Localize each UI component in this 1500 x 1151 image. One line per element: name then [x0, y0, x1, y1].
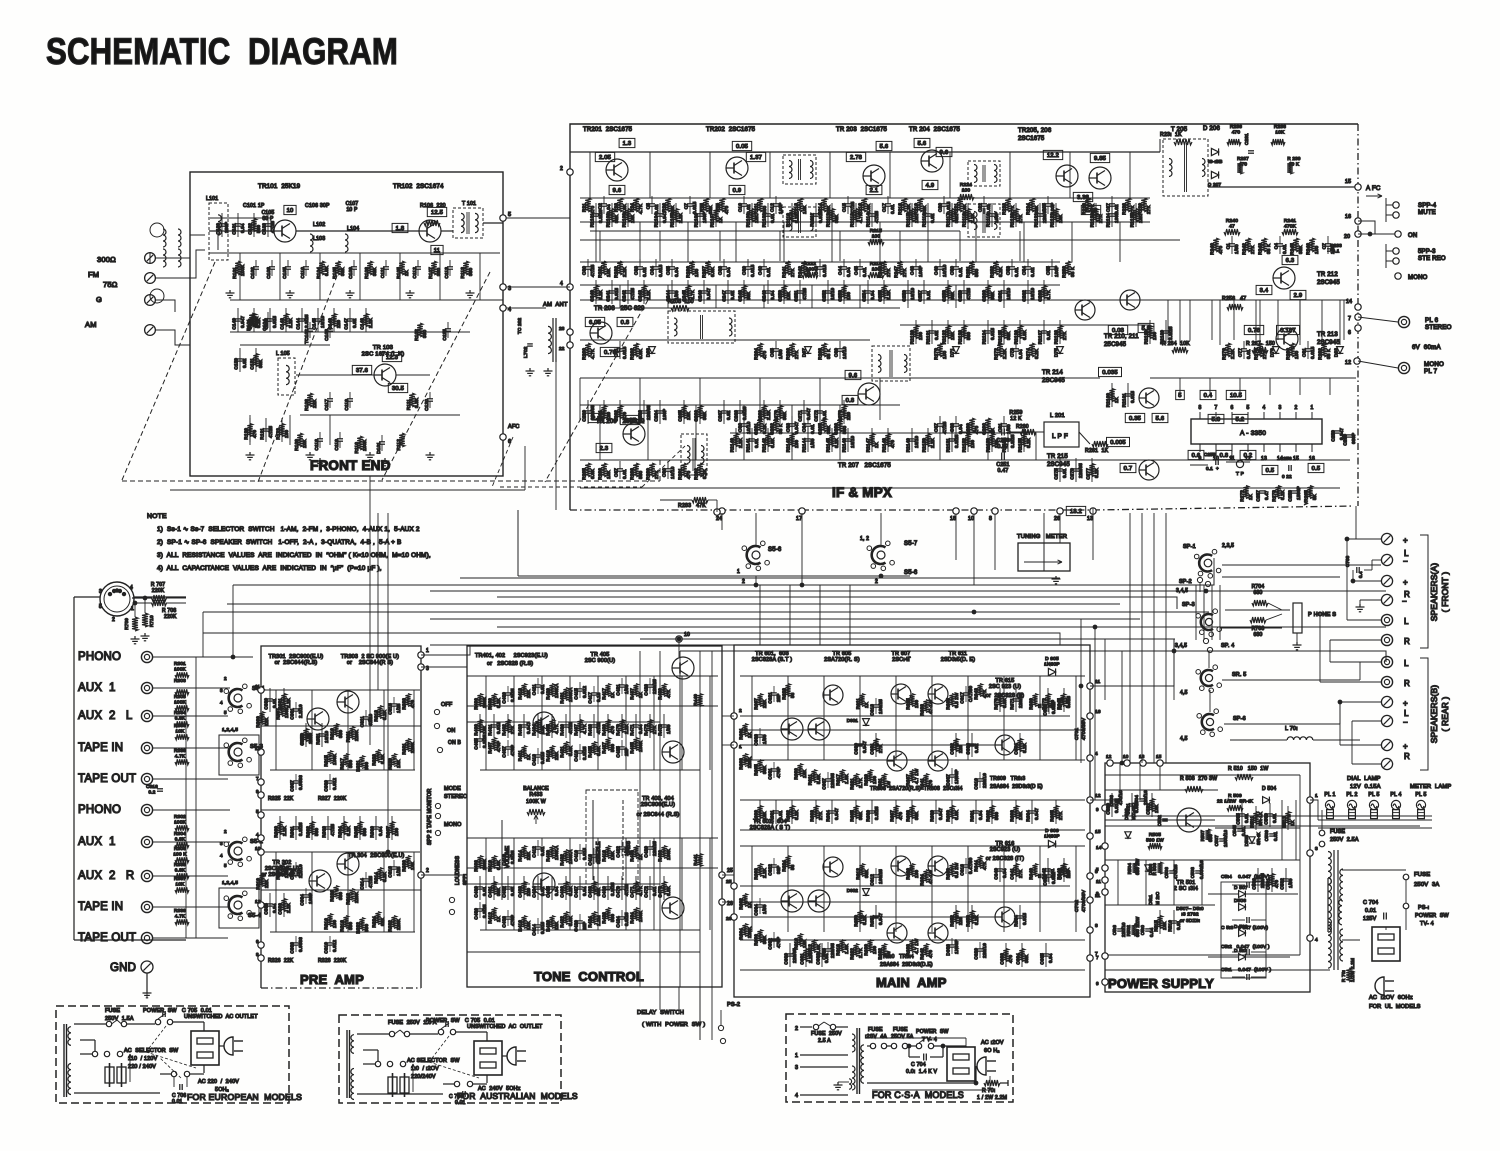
svg-text:2SC923 (U): 2SC923 (U) — [990, 847, 1020, 853]
svg-text:8.2K: 8.2K — [382, 710, 387, 720]
svg-text:R302: R302 — [174, 814, 186, 819]
wire — [789, 943, 791, 967]
svg-text:220K: 220K — [747, 927, 752, 938]
wire — [479, 876, 481, 900]
node 20 — [1355, 231, 1361, 237]
capacitor C77 — [1241, 348, 1247, 350]
wire — [365, 308, 367, 332]
svg-text:1K: 1K — [638, 692, 643, 698]
resistor R632 — [881, 944, 886, 957]
transistor TR212 — [1273, 267, 1295, 289]
capacitor C612 — [873, 874, 879, 876]
svg-text:13.2: 13.2 — [1070, 509, 1082, 515]
capacitor C410 — [505, 854, 511, 856]
resistor R338 input — [175, 759, 189, 765]
resistor R410 — [491, 856, 496, 869]
svg-text:R425: R425 — [588, 746, 593, 758]
svg-text:C415: C415 — [574, 688, 579, 700]
inductor L701 — [1287, 737, 1313, 740]
svg-text:470: 470 — [590, 205, 595, 214]
svg-text:R684: R684 — [826, 810, 831, 822]
svg-text:100: 100 — [872, 946, 877, 954]
wire node4 — [506, 286, 570, 288]
wire — [1003, 280, 1005, 304]
svg-text:8.2K: 8.2K — [834, 438, 839, 448]
svg-text:470: 470 — [610, 726, 615, 734]
measure voltage box 0.5 — [1262, 465, 1278, 474]
svg-text:6.8K: 6.8K — [954, 810, 959, 820]
antenna terminal y300 — [145, 295, 156, 306]
svg-text:2.2K: 2.2K — [622, 266, 627, 277]
wire IF h3 — [580, 261, 1060, 263]
inductor L105 box — [278, 358, 295, 395]
capacitor C48 — [913, 266, 919, 268]
svg-text:10K: 10K — [176, 882, 186, 887]
svg-text:15K: 15K — [994, 439, 999, 448]
svg-text:R362: R362 — [306, 826, 311, 838]
transistor TR501 — [1177, 808, 1201, 832]
ground tuning meter — [1055, 576, 1057, 579]
svg-text:R364: R364 — [338, 826, 343, 838]
svg-text:47/25: 47/25 — [874, 210, 879, 223]
svg-text:0.015: 0.015 — [692, 201, 697, 214]
svg-text:4: 4 — [256, 832, 259, 837]
resistor R331 — [405, 739, 410, 752]
measure voltage box 1.37 — [746, 152, 765, 161]
svg-text:C254: C254 — [862, 290, 867, 302]
svg-text:R617: R617 — [836, 774, 841, 786]
wire — [955, 905, 957, 929]
svg-text:C408: C408 — [502, 916, 507, 928]
svg-text:R465: R465 — [546, 724, 551, 736]
resistor R421 — [563, 742, 568, 755]
capacitor C10 — [741, 203, 747, 205]
aus transformer upper winding — [351, 1035, 354, 1054]
resistor R606 — [757, 930, 762, 943]
svg-text:R103: R103 — [364, 267, 369, 279]
svg-text:0.4: 0.4 — [1204, 393, 1213, 399]
resistor C281 — [757, 418, 763, 432]
svg-text:R428: R428 — [602, 912, 607, 924]
svg-text:R502: R502 — [1126, 925, 1131, 937]
svg-text:C258: C258 — [1288, 490, 1293, 502]
resistor R219 — [917, 198, 923, 212]
capacitor C530 — [1255, 878, 1261, 880]
resistor C684 — [1019, 949, 1024, 962]
svg-text:R330: R330 — [402, 860, 407, 872]
svg-text:R237: R237 — [1237, 156, 1249, 161]
resistor R683 — [813, 806, 818, 819]
wire — [333, 308, 335, 332]
resistor R260 — [585, 343, 591, 357]
measure voltage box 5.6 — [914, 138, 930, 147]
resistor R211 — [757, 198, 763, 212]
resistor R618 — [839, 940, 844, 953]
svg-text:0.015: 0.015 — [540, 921, 545, 934]
svg-text:TR 208 25C 829: TR 208 25C 829 — [594, 306, 645, 312]
svg-text:R625: R625 — [906, 698, 911, 710]
capacitor R363 — [325, 826, 331, 828]
tuning gang dashed vertical — [659, 460, 661, 481]
DIN connector jack — [100, 582, 134, 616]
wire — [1059, 458, 1061, 482]
svg-text:6.8K: 6.8K — [324, 265, 329, 276]
svg-text:A - 3350: A - 3350 — [1240, 430, 1266, 437]
resistor R239 10K — [1287, 162, 1293, 174]
pre amp section box — [261, 646, 421, 988]
svg-text:R673: R673 — [1058, 698, 1063, 710]
transistor TR206 — [1089, 167, 1111, 189]
svg-text:FOR EUROPEAN MODELS: FOR EUROPEAN MODELS — [187, 1092, 302, 1102]
svg-text:2.2K: 2.2K — [808, 953, 813, 963]
AFC arrow — [1366, 195, 1382, 197]
resistor R2105 — [673, 209, 678, 222]
resistor R412 — [491, 908, 496, 921]
svg-text:C 704: C 704 — [1363, 900, 1378, 906]
capacitor C246 — [701, 290, 707, 292]
svg-text:L: L — [1404, 617, 1409, 626]
tone wires — [467, 675, 718, 677]
input jack TAPE IN 907 — [141, 901, 152, 912]
vertical IF to preamp 2 — [377, 513, 379, 690]
svg-text:−: − — [1403, 557, 1408, 566]
svg-text:C462: C462 — [502, 886, 507, 898]
svg-text:C316: C316 — [146, 784, 158, 789]
svg-text:R236: R236 — [1230, 124, 1242, 130]
resistor R2107 — [713, 209, 718, 222]
bus extra 1 — [460, 577, 1060, 579]
svg-text:C44: C44 — [838, 266, 843, 275]
resistor R411 — [521, 746, 526, 759]
svg-text:250V 2.5A: 250V 2.5A — [1330, 837, 1359, 843]
svg-text:R626: R626 — [906, 868, 911, 880]
PL6 jack — [1398, 316, 1409, 327]
svg-text:C113: C113 — [444, 267, 449, 279]
svg-text:12: 12 — [1345, 360, 1351, 366]
node 23 — [567, 329, 573, 335]
capacitor C256 — [905, 290, 911, 292]
svg-text:0.02: 0.02 — [352, 318, 357, 328]
svg-text:TR 213: TR 213 — [1317, 332, 1338, 338]
transistor TR207 — [858, 383, 880, 405]
svg-text:AC SELECTOR SW: AC SELECTOR SW — [124, 1048, 179, 1054]
resistor R640 — [1032, 864, 1037, 877]
svg-text:220: 220 — [1066, 870, 1071, 878]
svg-text:AFC: AFC — [508, 424, 520, 430]
svg-text:C630: C630 — [854, 743, 859, 755]
svg-text:4700/35V: 4700/35V — [1081, 889, 1087, 912]
resistor R268 — [821, 343, 827, 357]
capacitor C272 — [817, 410, 823, 412]
capacitor C308 — [293, 942, 299, 944]
svg-text:C45: C45 — [854, 266, 859, 275]
IF transformer T205 box — [1163, 139, 1208, 196]
svg-text:R469: R469 — [602, 724, 607, 736]
svg-text:100: 100 — [872, 234, 881, 240]
capacitor C419 — [577, 750, 583, 752]
resistor R623 — [785, 684, 790, 697]
svg-text:C634: C634 — [1014, 743, 1019, 755]
wire — [1255, 806, 1257, 830]
resistor R631 — [881, 774, 886, 787]
ground am ant — [547, 368, 549, 371]
wire — [1015, 203, 1017, 227]
svg-text:10K: 10K — [1154, 804, 1159, 813]
svg-text:R365: R365 — [354, 826, 359, 838]
svg-text:C641: C641 — [1010, 868, 1015, 880]
transistor TR402 — [533, 873, 555, 895]
svg-text:C142: C142 — [264, 318, 269, 330]
wire — [565, 714, 567, 738]
svg-text:0.04: 0.04 — [1018, 349, 1023, 359]
resistor R409 — [491, 694, 496, 707]
svg-text:AUX 2 R: AUX 2 R — [78, 870, 134, 882]
svg-text:C265: C265 — [678, 410, 683, 422]
svg-text:R2110: R2110 — [786, 213, 791, 227]
wire — [907, 280, 909, 304]
transistor TR210 — [1075, 300, 1095, 320]
resistor R416 — [521, 916, 526, 929]
wire tone to main — [722, 874, 734, 876]
svg-text:100: 100 — [1294, 350, 1299, 359]
svg-text:0.01: 0.01 — [754, 438, 759, 448]
capacitor C470 — [619, 886, 625, 888]
transistor main amp Q11 — [823, 857, 843, 877]
resistor R420 — [549, 916, 554, 929]
capacitor R2151 — [949, 438, 955, 440]
svg-text:R110: R110 — [354, 442, 359, 454]
svg-text:11: 11 — [255, 684, 260, 689]
svg-text:2.5 A: 2.5 A — [818, 1038, 831, 1044]
euro transformer upper winding — [68, 1027, 71, 1046]
svg-text:R274: R274 — [1026, 348, 1031, 360]
wire — [1075, 458, 1077, 482]
resistor R685 — [853, 806, 858, 819]
capacitor C115 front-end — [445, 328, 451, 330]
measure voltage box 5.9 — [1138, 323, 1154, 332]
svg-text:C530: C530 — [1252, 878, 1257, 890]
svg-text:R236: R236 — [686, 266, 691, 278]
svg-text:R109: R109 — [294, 439, 299, 451]
svg-text:0.02: 0.02 — [934, 330, 939, 340]
svg-text:C 5ı3 0 047 (100V): C 5ı3 0 047 (100V) — [1221, 925, 1268, 931]
csa vert — [965, 1038, 967, 1046]
capacitor R471 — [633, 724, 639, 726]
svg-text:3,4,5: 3,4,5 — [1176, 588, 1188, 594]
resistor R335 input — [175, 873, 189, 879]
svg-text:1BK: 1BK — [610, 851, 615, 860]
svg-text:330: 330 — [338, 730, 343, 738]
svg-text:10/10: 10/10 — [670, 466, 675, 479]
svg-text:R463: R463 — [518, 724, 523, 736]
svg-text:C118: C118 — [314, 439, 319, 451]
resistor R2150 — [925, 434, 930, 447]
node 22 — [567, 342, 573, 348]
svg-text:0.47: 0.47 — [1264, 490, 1269, 500]
svg-text:R238: R238 — [1274, 124, 1286, 130]
svg-text:C619: C619 — [974, 778, 979, 790]
resistor R2142 — [765, 434, 770, 447]
svg-text:22K: 22K — [312, 398, 317, 408]
wire — [1045, 943, 1047, 967]
svg-text:0.047: 0.047 — [878, 912, 883, 925]
svg-text:0.2: 0.2 — [1244, 453, 1253, 459]
capacitor C603 — [757, 734, 763, 736]
capacitor C414 — [535, 924, 541, 926]
svg-text:L: L — [1404, 709, 1409, 718]
svg-text:R507: R507 — [1200, 830, 1205, 842]
sp vertical feeds — [1195, 585, 1197, 640]
capacitor C35 — [669, 266, 675, 268]
wire — [887, 428, 889, 452]
main h wire — [740, 729, 1085, 731]
capacitor C601 — [771, 768, 777, 770]
svg-text:6.3: 6.3 — [1286, 258, 1295, 264]
capacitor C310 — [327, 942, 333, 944]
svg-text:33 K: 33 K — [826, 348, 831, 359]
resistor R670 — [997, 694, 1002, 707]
capacitor C607 — [825, 778, 831, 780]
ground front-end — [409, 290, 411, 293]
svg-text:1K: 1K — [526, 754, 531, 760]
svg-text:1.8K: 1.8K — [844, 774, 849, 784]
svg-text:S5-7: S5-7 — [904, 541, 918, 547]
resistor R419 — [549, 746, 554, 759]
resistor R301 input — [175, 672, 189, 678]
svg-text:R2155: R2155 — [1018, 438, 1023, 453]
wire — [537, 876, 539, 900]
svg-text:C106 30P: C106 30P — [305, 203, 330, 209]
svg-text:( FRONT ): ( FRONT ) — [1440, 572, 1450, 613]
euro C705 — [162, 1011, 164, 1017]
svg-text:R23ı 1K: R23ı 1K — [1160, 132, 1182, 138]
svg-text:R256: R256 — [1062, 266, 1067, 278]
capacitor C642 — [1045, 868, 1051, 870]
resistor R612 — [859, 864, 864, 877]
svg-text:680P: 680P — [1351, 433, 1356, 444]
selector area box bottom — [518, 575, 910, 577]
bus verticals center — [1080, 619, 1082, 763]
front end gnd row2 — [249, 452, 251, 455]
svg-text:C617: C617 — [960, 692, 965, 704]
svg-text:R289: R289 — [646, 468, 651, 480]
resistor R274 — [1029, 343, 1035, 357]
svg-text:75Ω: 75Ω — [103, 280, 118, 289]
svg-text:6: 6 — [1231, 405, 1234, 411]
resistor R109 front-end — [297, 433, 303, 447]
SS-4 box — [219, 888, 259, 928]
input shield enclosure — [74, 596, 100, 598]
svg-text:C1: C1 — [1226, 243, 1231, 250]
capacitor C267 — [721, 410, 727, 412]
svg-text:R303: R303 — [174, 678, 186, 683]
svg-text:C246: C246 — [698, 290, 703, 302]
capacitor C408 — [505, 916, 511, 918]
svg-text:16: 16 — [1309, 456, 1315, 462]
valbox 13.2 — [1066, 506, 1085, 515]
svg-text:C684: C684 — [1016, 953, 1021, 965]
svg-text:R690: R690 — [946, 810, 951, 822]
resistor R266 — [789, 343, 795, 357]
svg-text:4.9: 4.9 — [926, 183, 935, 189]
resistor R237 470 — [1237, 162, 1243, 174]
svg-text:C532: C532 — [1280, 878, 1285, 890]
resistor R505 — [1148, 843, 1162, 849]
svg-text:100: 100 — [970, 440, 975, 448]
power vertical right — [1299, 775, 1301, 790]
resistor R226 — [1085, 198, 1091, 212]
svg-text:2: 2 — [224, 676, 227, 681]
svg-text:0.01: 0.01 — [778, 810, 783, 820]
svg-text:470P: 470P — [776, 767, 781, 778]
svg-text:1K: 1K — [610, 692, 615, 698]
svg-text:220/35: 220/35 — [590, 405, 595, 420]
svg-text:C683: C683 — [1000, 953, 1005, 965]
for csa models box — [786, 1014, 1013, 1102]
svg-text:R2146: R2146 — [842, 438, 847, 453]
capacitor C460 — [477, 886, 483, 888]
svg-text:C5ı2 0.047 (100V ): C5ı2 0.047 (100V ) — [1221, 944, 1270, 950]
measure voltage box 2.85 — [588, 413, 607, 422]
svg-text:R23: R23 — [614, 203, 619, 212]
resistor R638 — [909, 940, 914, 953]
svg-text:8: 8 — [989, 516, 992, 522]
wire — [285, 308, 287, 332]
svg-text:22K: 22K — [264, 717, 269, 726]
resistor C148 — [363, 314, 368, 327]
gnd wire below GND jack — [146, 990, 148, 997]
wire — [221, 213, 223, 237]
vertical drops IF bottom nodes — [721, 513, 723, 530]
svg-text:0.8: 0.8 — [846, 398, 855, 404]
capacitor C405 — [477, 738, 483, 740]
svg-text:8.2K: 8.2K — [1026, 438, 1031, 448]
capacitor C618 — [963, 864, 969, 866]
node 6 — [1355, 325, 1361, 331]
capacitor R2121 — [1037, 213, 1043, 215]
svg-text:R240: R240 — [1226, 218, 1238, 224]
svg-text:R 239: R 239 — [1287, 156, 1301, 161]
svg-text:47/25: 47/25 — [630, 287, 635, 300]
measure voltage box 2.3 — [596, 443, 612, 452]
svg-text:33K: 33K — [864, 869, 869, 878]
resistor R306 input — [175, 857, 189, 863]
svg-text:R224: R224 — [1026, 203, 1031, 215]
svg-text:L102: L102 — [313, 222, 325, 228]
svg-text:OFF: OFF — [441, 702, 453, 708]
diode D505 — [1249, 837, 1255, 843]
wire — [967, 203, 969, 227]
capacitor C254 — [865, 290, 871, 292]
svg-text:C144: C144 — [296, 318, 301, 330]
svg-text:2.2K: 2.2K — [762, 868, 767, 878]
antenna terminal y278 — [145, 273, 156, 284]
svg-text:R639: R639 — [1029, 698, 1034, 710]
svg-text:0.04: 0.04 — [824, 953, 829, 963]
wire — [951, 428, 953, 452]
wire — [1159, 910, 1161, 934]
bridge box lines — [1221, 882, 1266, 978]
resistor R439 — [661, 684, 666, 697]
svg-text:2.2/10: 2.2/10 — [298, 864, 303, 878]
svg-text:2.78: 2.78 — [850, 155, 862, 161]
svg-text:R601: R601 — [739, 728, 744, 740]
resistor R270 — [937, 343, 943, 357]
capacitor C516 220/10 — [1117, 928, 1123, 930]
svg-text:220K: 220K — [747, 757, 752, 768]
svg-text:C520: C520 — [1106, 803, 1111, 815]
node 3 — [500, 284, 506, 290]
